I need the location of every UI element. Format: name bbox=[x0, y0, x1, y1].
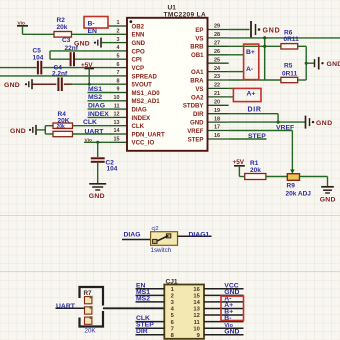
svg-text:GND: GND bbox=[10, 128, 26, 135]
svg-text:11: 11 bbox=[114, 103, 120, 109]
svg-text:R2: R2 bbox=[57, 17, 66, 24]
svg-text:R5: R5 bbox=[284, 62, 293, 69]
svg-text:18: 18 bbox=[214, 116, 220, 122]
svg-text:10: 10 bbox=[193, 326, 199, 332]
svg-text:GND: GND bbox=[190, 120, 204, 127]
svg-text:20k ADJ: 20k ADJ bbox=[286, 190, 312, 197]
svg-text:INDEX: INDEX bbox=[88, 111, 109, 118]
svg-text:20k: 20k bbox=[57, 24, 68, 31]
svg-text:GND: GND bbox=[327, 61, 340, 68]
svg-text:MS2: MS2 bbox=[136, 295, 150, 302]
svg-text:PDN_UART: PDN_UART bbox=[132, 131, 165, 138]
svg-text:GND: GND bbox=[320, 197, 336, 204]
svg-text:0R11: 0R11 bbox=[282, 70, 298, 77]
svg-text:R7: R7 bbox=[84, 290, 93, 297]
svg-text:EP: EP bbox=[195, 27, 203, 34]
svg-text:16: 16 bbox=[214, 133, 220, 139]
svg-text:DIAG: DIAG bbox=[88, 103, 105, 110]
svg-text:GND: GND bbox=[89, 193, 105, 200]
svg-text:28: 28 bbox=[214, 32, 220, 38]
svg-text:B-: B- bbox=[88, 20, 95, 27]
svg-text:12: 12 bbox=[193, 313, 199, 319]
svg-text:OA2: OA2 bbox=[191, 94, 204, 101]
svg-text:29: 29 bbox=[214, 24, 220, 30]
svg-text:EN: EN bbox=[88, 28, 98, 35]
svg-text:22: 22 bbox=[214, 83, 220, 89]
svg-text:GND: GND bbox=[4, 82, 20, 89]
svg-text:3: 3 bbox=[117, 37, 120, 43]
svg-text:24: 24 bbox=[214, 66, 221, 72]
svg-text:27: 27 bbox=[214, 41, 220, 47]
svg-text:ENN: ENN bbox=[132, 32, 145, 39]
svg-text:20: 20 bbox=[214, 100, 220, 106]
svg-text:9: 9 bbox=[117, 87, 120, 93]
svg-text:VCP: VCP bbox=[132, 65, 145, 72]
svg-text:20k: 20k bbox=[250, 167, 261, 174]
svg-text:20K: 20K bbox=[85, 327, 97, 334]
svg-text:2: 2 bbox=[171, 294, 174, 300]
svg-text:VCC_IO: VCC_IO bbox=[132, 140, 155, 147]
svg-text:5VOUT: 5VOUT bbox=[132, 82, 153, 89]
svg-text:Vio: Vio bbox=[85, 137, 92, 143]
svg-text:CLK: CLK bbox=[83, 119, 97, 126]
svg-text:GND: GND bbox=[263, 27, 281, 34]
svg-text:4: 4 bbox=[117, 45, 120, 51]
svg-text:B+: B+ bbox=[246, 49, 255, 56]
svg-text:C3: C3 bbox=[62, 37, 71, 44]
svg-text:5: 5 bbox=[117, 53, 120, 59]
svg-text:DIR: DIR bbox=[193, 111, 204, 118]
svg-text:13: 13 bbox=[193, 307, 200, 313]
svg-text:TMC2209 LA: TMC2209 LA bbox=[164, 11, 207, 18]
svg-text:12: 12 bbox=[114, 112, 120, 118]
svg-text:DIR: DIR bbox=[248, 107, 262, 114]
svg-text:R1: R1 bbox=[250, 160, 259, 167]
svg-text:GND: GND bbox=[132, 40, 146, 47]
svg-text:7: 7 bbox=[171, 326, 174, 332]
svg-text:0R11: 0R11 bbox=[284, 36, 300, 43]
svg-text:14: 14 bbox=[114, 128, 120, 134]
svg-text:19: 19 bbox=[214, 108, 220, 114]
svg-text:MS2_AD1: MS2_AD1 bbox=[132, 98, 161, 105]
svg-text:14: 14 bbox=[193, 300, 200, 306]
svg-text:A-: A- bbox=[246, 66, 253, 73]
svg-text:OA1: OA1 bbox=[191, 69, 204, 76]
svg-text:17: 17 bbox=[214, 125, 220, 131]
svg-text:C5: C5 bbox=[33, 47, 42, 54]
svg-text:22nf: 22nf bbox=[65, 45, 79, 52]
svg-text:8: 8 bbox=[117, 78, 120, 84]
svg-text:20k: 20k bbox=[57, 124, 66, 130]
svg-text:UART: UART bbox=[56, 303, 76, 310]
svg-text:DIAG1: DIAG1 bbox=[189, 232, 210, 239]
svg-text:CPI: CPI bbox=[132, 57, 142, 64]
svg-text:104: 104 bbox=[33, 54, 44, 61]
svg-text:DIAG: DIAG bbox=[132, 107, 147, 114]
svg-text:R9: R9 bbox=[287, 183, 296, 190]
svg-text:104: 104 bbox=[107, 166, 118, 173]
svg-text:A+: A+ bbox=[247, 91, 256, 98]
svg-text:21: 21 bbox=[214, 91, 220, 97]
svg-text:OB1: OB1 bbox=[191, 52, 204, 59]
svg-text:VS: VS bbox=[195, 35, 203, 42]
svg-text:16: 16 bbox=[193, 287, 200, 293]
svg-text:INDEX: INDEX bbox=[132, 115, 152, 122]
svg-text:CPO: CPO bbox=[132, 48, 145, 55]
svg-text:BRB: BRB bbox=[190, 44, 204, 51]
svg-text:23: 23 bbox=[214, 74, 220, 80]
svg-text:DIAG: DIAG bbox=[124, 232, 141, 239]
svg-text:7: 7 bbox=[117, 70, 120, 76]
svg-text:26: 26 bbox=[214, 49, 220, 55]
svg-text:6: 6 bbox=[117, 62, 120, 68]
svg-text:MS2: MS2 bbox=[88, 94, 102, 101]
svg-text:CLK: CLK bbox=[132, 123, 145, 130]
svg-text:1: 1 bbox=[117, 20, 120, 26]
svg-text:GND: GND bbox=[224, 328, 239, 335]
svg-text:MS1_AD0: MS1_AD0 bbox=[132, 90, 161, 97]
svg-text:BRA: BRA bbox=[190, 77, 204, 84]
svg-text:GND: GND bbox=[316, 120, 333, 127]
svg-text:VREF: VREF bbox=[276, 124, 294, 131]
svg-text:1switch: 1switch bbox=[151, 247, 172, 254]
svg-text:STEP: STEP bbox=[248, 133, 266, 140]
svg-text:VS: VS bbox=[195, 86, 203, 93]
svg-text:UART: UART bbox=[85, 129, 105, 136]
svg-text:10: 10 bbox=[114, 95, 120, 101]
svg-text:STEP: STEP bbox=[188, 136, 204, 143]
svg-text:2: 2 bbox=[117, 29, 120, 35]
svg-text:15: 15 bbox=[114, 137, 120, 143]
svg-text:15: 15 bbox=[193, 294, 200, 300]
svg-text:25: 25 bbox=[214, 57, 220, 63]
svg-text:DIR: DIR bbox=[136, 328, 148, 335]
svg-text:13: 13 bbox=[114, 120, 120, 126]
svg-text:11: 11 bbox=[194, 320, 201, 326]
svg-text:OB2: OB2 bbox=[132, 23, 145, 30]
svg-text:STDBY: STDBY bbox=[183, 103, 204, 110]
svg-text:SPREAD: SPREAD bbox=[132, 73, 158, 80]
svg-text:2.2nf: 2.2nf bbox=[52, 71, 68, 78]
svg-text:VREF: VREF bbox=[187, 128, 204, 135]
svg-text:MS1: MS1 bbox=[88, 86, 102, 93]
